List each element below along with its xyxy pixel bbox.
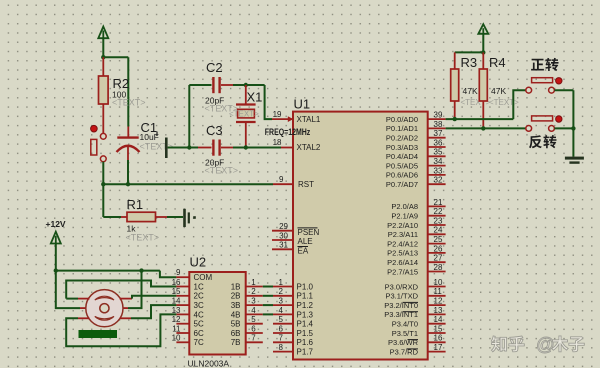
svg-text:28: 28 [434,263,443,272]
wire VCC right [482,34,484,53]
pin stub P0.4 pin 35 [428,155,446,157]
svg-text:8: 8 [279,343,284,352]
pin stub R3 bottom [454,101,456,119]
svg-text:7B: 7B [231,338,241,347]
wire P0.0 net [446,118,514,120]
svg-text:26: 26 [434,244,443,253]
pin stub XTAL1 pin 19 [272,118,293,120]
svg-text:4C: 4C [194,310,204,319]
svg-text:P1.2: P1.2 [297,301,314,310]
pin stub 2C pin 15 [176,295,189,297]
driver U2 body [189,272,245,355]
pin stub P1.0 pin 1 [273,286,293,288]
pin stub C2 right [221,84,233,86]
wire rail to COM [160,271,177,278]
svg-text:14: 14 [172,297,181,306]
svg-text:P3.4/T0: P3.4/T0 [392,320,418,329]
pin stub R1 left [121,216,127,218]
wire RST net [103,183,273,185]
junction R4-P0.1 [481,126,485,130]
svg-text:36: 36 [434,138,443,147]
wire up to button FWD [513,90,526,119]
push button REV (fan zhuan) [526,125,532,131]
indicator dot S1 [91,125,98,132]
wire button to RST net [102,162,104,185]
overline WR [408,339,419,341]
svg-text:10uF: 10uF [140,132,159,142]
svg-text:COM: COM [194,273,213,282]
pin stub 30 [272,239,293,241]
svg-text:47K: 47K [463,86,478,96]
wire C1 to RST net [127,160,129,184]
pin stub 2B pin 2 [246,295,263,297]
pin stub P0.5 pin 34 [428,165,446,167]
pin stub C3 right [221,147,233,149]
svg-text:1B: 1B [231,282,241,291]
svg-text:7: 7 [251,334,256,343]
svg-text:3: 3 [279,297,284,306]
svg-text:<TEXT>: <TEXT> [205,166,239,176]
svg-text:P2.1/A9: P2.1/A9 [391,212,418,221]
wire UL [66,298,78,300]
pin stub R2 top [102,57,104,76]
svg-text:P0.6/AD6: P0.6/AD6 [386,171,418,180]
svg-text:P2.3/A11: P2.3/A11 [388,230,418,239]
svg-text:4: 4 [251,306,256,315]
svg-text:RST: RST [298,180,314,189]
svg-text:<TEXT>: <TEXT> [489,98,519,107]
svg-text:R1: R1 [127,197,144,212]
svg-text:15: 15 [172,287,181,296]
pin stub P0.3 pin 36 [428,146,446,148]
pin stub P0.7 pin 32 [428,183,446,185]
wire P0.1 net [446,127,526,129]
overline RD [407,348,419,350]
svg-text:12: 12 [434,297,443,306]
pin stub P1.7 pin 8 [273,351,293,353]
svg-text:P1.5: P1.5 [297,329,314,338]
pin stub P3.5 pin 15 [428,332,446,334]
pin stub P3.2 pin 12 [428,304,446,306]
capacitor C1 (electrolytic) [117,136,138,138]
svg-text:ALE: ALE [298,237,313,246]
svg-text:5B: 5B [231,320,241,329]
svg-text:P1.4: P1.4 [297,320,314,329]
svg-text:P0.4/AD4: P0.4/AD4 [386,152,418,161]
svg-text:3: 3 [251,297,256,306]
pin stub 3B pin 3 [246,304,263,306]
svg-text:6C: 6C [194,329,204,338]
power terminal VCC right [478,24,488,34]
svg-text:33: 33 [434,166,443,175]
svg-text:2: 2 [251,287,256,296]
svg-text:EA: EA [298,247,309,256]
pin stub motor left tap [80,307,88,309]
svg-text:9: 9 [279,175,284,184]
pin stub C3 left [198,147,212,149]
power terminal +12V [51,232,61,244]
wire C3 to XTAL2 [233,147,281,149]
pin stub 1C pin 16 [176,286,189,288]
svg-text:22: 22 [434,207,443,216]
power terminal VCC left [98,27,108,39]
pin stub P0.0 pin 39 [428,118,446,120]
svg-text:P0.2/AD2: P0.2/AD2 [386,134,418,143]
pin stub P2.7 pin 28 [428,271,446,273]
pin stub C1 bottom [127,147,129,160]
svg-text:P0.3/AD3: P0.3/AD3 [386,143,418,152]
svg-text:P2.2/A10: P2.2/A10 [387,221,418,230]
svg-text:P3.0/RXD: P3.0/RXD [385,282,419,291]
svg-text:13: 13 [434,306,443,315]
junction RST net at C1 [126,182,130,186]
wire down to C1 [127,57,129,126]
pin stub C1 top [127,127,129,138]
pin stub P0.2 pin 37 [428,137,446,139]
svg-text:6: 6 [279,324,284,333]
pin stub R1 right [156,216,168,218]
svg-text:25: 25 [434,235,443,244]
svg-text:17: 17 [434,343,443,352]
pin stub 4C pin 13 [176,313,189,315]
pin stub R3 top [454,52,456,69]
svg-text:C3: C3 [206,123,223,138]
resistor R4 [479,69,487,101]
svg-text:3C: 3C [194,301,204,310]
pin stub P2.5 pin 26 [428,252,446,254]
svg-text:2B: 2B [231,292,241,301]
pin stub 6C pin 11 [176,332,189,334]
label REV (CJK) [529,135,542,148]
junction +12V rail right [139,268,143,272]
wire to C3 [189,147,198,149]
svg-text:<TEXT>: <TEXT> [229,110,259,119]
svg-text:P2.6/A14: P2.6/A14 [387,258,418,267]
pin stub P2.2 pin 23 [428,224,446,226]
svg-text:5: 5 [279,315,284,324]
svg-text:7C: 7C [194,338,204,347]
svg-text:FREQ=12MHz: FREQ=12MHz [265,127,311,137]
svg-text:7: 7 [279,334,284,343]
pin stub P3.6 pin 16 [428,341,446,343]
capacitor C3 [212,140,214,156]
svg-text:15: 15 [434,324,443,333]
svg-text:37: 37 [434,129,443,138]
svg-text:47K: 47K [491,86,506,96]
pin stub P1.5 pin 6 [273,332,293,334]
wire LR to 3C [131,305,176,318]
ground [565,157,584,160]
wire 4B to P1.3 [263,313,273,315]
svg-text:U1: U1 [294,97,311,112]
pin stub XTAL2 pin 18 [281,147,293,149]
svg-text:XTAL1: XTAL1 [297,115,321,124]
svg-text:23: 23 [434,216,443,225]
svg-text:2: 2 [279,287,284,296]
pin stub 31 [272,248,293,250]
svg-text:1: 1 [279,278,284,287]
svg-text:C2: C2 [206,60,223,75]
pin stub 7C pin 10 [176,341,189,343]
wire left rail C2-C3 [188,85,190,148]
terminal bar T1 (near C1) [165,138,168,159]
svg-text:27: 27 [434,254,443,263]
pin stub RST [273,183,293,185]
svg-text:6B: 6B [231,329,241,338]
pin stub 3C pin 14 [176,304,189,306]
wire 3B to P1.2 [263,304,273,306]
pin stub P1.4 pin 5 [273,323,293,325]
svg-text:24: 24 [434,226,443,235]
svg-text:XTAL2: XTAL2 [297,143,321,152]
wire VCC to node [102,38,104,57]
svg-text:U2: U2 [190,255,207,270]
wire 2B to P1.1 [263,295,273,297]
wire R1 to terminal [167,216,183,218]
pin stub P1.3 pin 4 [273,313,293,315]
pin stub P3.3 pin 13 [428,313,446,315]
wire X1 node to XTAL1 [265,85,272,119]
microcontroller U1 body [293,112,428,360]
stepper motor M1 [86,290,123,327]
wire +12V to motor left tap [56,271,80,309]
svg-text:19: 19 [273,110,282,119]
motor terminal UR [120,298,133,300]
svg-text:P2.5/A13: P2.5/A13 [387,249,418,258]
svg-text:1: 1 [251,278,256,287]
wire node to C1 branch [103,56,128,58]
svg-text:PSEN: PSEN [298,228,320,237]
svg-text:4: 4 [279,306,284,315]
svg-text:<TEXT>: <TEXT> [126,233,160,243]
pin stub P3.4 pin 14 [428,323,446,325]
motor label green box [79,330,118,338]
pin stub P3.0 pin 10 [428,286,446,288]
wire LL to 4C [66,314,176,346]
wire button REV to gnd rail [554,127,573,129]
svg-text:14: 14 [434,315,443,324]
svg-text:10: 10 [172,334,181,343]
resistor R2 [99,76,109,104]
junction gnd rail [571,126,575,130]
svg-text:38: 38 [434,120,443,129]
svg-text:P0.0/AD0: P0.0/AD0 [386,115,418,124]
push button FWD (zheng zhuan) [526,87,532,93]
pin stub motor right tap [120,307,128,309]
pin stub R2 bottom [102,104,104,133]
wire UL to 1C [66,281,176,299]
svg-text:<TEXT>: <TEXT> [112,98,146,108]
junction X1 bottom [244,145,248,149]
junction VCC right [481,50,485,54]
svg-text:P2.0/A8: P2.0/A8 [391,202,418,211]
svg-text:9: 9 [176,268,181,277]
junction node VCC-left [101,55,105,59]
resistor R1 [127,212,156,221]
svg-text:P3.1/TXD: P3.1/TXD [385,292,418,301]
svg-text:5: 5 [251,315,256,324]
svg-text:P1.7: P1.7 [297,348,314,357]
pin stub P2.1 pin 22 [428,215,446,217]
svg-text:P0.5/AD5: P0.5/AD5 [386,161,418,170]
junction X1 top [244,83,248,87]
svg-text:P0.1/AD1: P0.1/AD1 [386,124,418,133]
resistor R3 [451,69,459,101]
push button S1 (vertical) [100,133,106,139]
svg-text:31: 31 [279,241,288,250]
svg-text:6: 6 [251,324,256,333]
pin stub COM pin 9 [176,276,189,278]
svg-text:@: @ [536,333,555,354]
pin stub P3.7 pin 17 [428,351,446,353]
svg-text:30: 30 [279,231,288,240]
wire UR to 2C [132,296,176,299]
wire C2 to X1 node [233,84,265,86]
svg-text:P1.0: P1.0 [297,282,314,291]
pin stub 5C pin 12 [176,323,189,325]
pin stub 4B pin 4 [246,313,263,315]
wire to R3 top [455,51,484,53]
svg-text:34: 34 [434,157,443,166]
motor terminal LL [78,317,90,319]
svg-text:R4: R4 [489,55,506,70]
pin stub P2.0 pin 21 [428,205,446,207]
svg-text:P2.7/A15: P2.7/A15 [387,267,418,276]
overline INT1 [403,311,419,313]
pin stub P0.1 pin 38 [428,127,446,129]
svg-text:18: 18 [273,138,282,147]
svg-text:16: 16 [434,334,443,343]
svg-text:R3: R3 [461,55,478,70]
junction +12V rail left [54,268,58,272]
terminal bar T2 (after R1) [183,209,186,227]
wire 1B to P1.0 [263,286,273,288]
svg-text:P0.7/AD7: P0.7/AD7 [386,180,418,189]
svg-text:P1.6: P1.6 [297,338,314,347]
junction XTAL2 net left [187,145,191,149]
pin stub 29 [272,230,293,232]
svg-text:32: 32 [434,176,443,185]
pin stub P1.2 pin 3 [273,304,293,306]
wire +12V to motor right tap [128,271,142,309]
pin stub 5B pin 5 [246,323,263,325]
pin stub 6B pin 6 [246,332,263,334]
svg-text:39: 39 [434,111,443,120]
junction R3-P0.0 [453,117,457,121]
svg-text:1C: 1C [194,282,204,291]
wire button FWD to gnd rail [554,89,573,91]
wire to C2 [189,84,211,86]
pin stub P2.3 pin 24 [428,233,446,235]
motor terminal LR [120,317,132,319]
svg-text:P2.4/A12: P2.4/A12 [387,239,418,248]
pin stub P2.4 pin 25 [428,243,446,245]
pin stub P2.6 pin 27 [428,261,446,263]
motor terminal UL [78,298,90,300]
svg-text:+12V: +12V [46,219,66,229]
svg-text:X1: X1 [247,90,263,105]
junction RST net at button [101,182,105,186]
svg-text:11: 11 [172,324,181,333]
svg-text:5C: 5C [194,320,204,329]
svg-text:11: 11 [434,287,443,296]
wire +12V rail [56,270,160,272]
svg-text:29: 29 [279,222,288,231]
svg-text:16: 16 [172,278,181,287]
pin stub 7B pin 7 [246,341,263,343]
pin stub R4 bottom [482,101,484,128]
svg-text:ULN2003A: ULN2003A [188,358,230,368]
svg-text:P3.5/T1: P3.5/T1 [392,329,418,338]
overline INT0 [403,301,419,303]
wire gnd rail vertical [572,90,574,156]
label FWD (CJK) [531,59,544,71]
wire to R1 left [103,216,121,218]
svg-text:3B: 3B [231,301,241,310]
svg-text:2C: 2C [194,292,204,301]
svg-text:35: 35 [434,148,443,157]
wire T1 to XTAL2 net [168,147,190,149]
svg-text:13: 13 [172,306,181,315]
svg-text:P1.3: P1.3 [297,310,314,319]
pin stub R4 top [482,52,484,69]
wire +12V down [55,244,57,271]
svg-text:21: 21 [434,198,443,207]
pin stub P1.6 pin 7 [273,341,293,343]
capacitor C2 [212,77,214,93]
pin stub P3.1 pin 11 [428,295,446,297]
watermark zhihu [491,336,506,352]
pin stub P1.1 pin 2 [273,295,293,297]
pin stub 1B pin 1 [246,286,263,288]
wire down to R1 [102,184,104,217]
svg-text:10: 10 [434,278,443,287]
svg-text:P1.1: P1.1 [297,292,314,301]
svg-text:4B: 4B [231,310,241,319]
pin stub P0.6 pin 33 [428,174,446,176]
crystal X1 [245,85,247,105]
svg-text:12: 12 [172,315,181,324]
